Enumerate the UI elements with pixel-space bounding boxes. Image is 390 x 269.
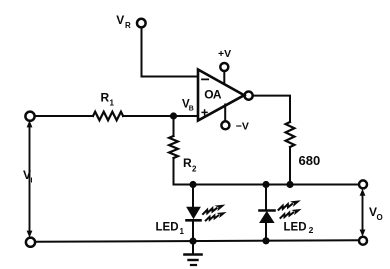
LED1 cathode bar [187, 219, 201, 222]
LED2 light arrow upper [277, 198, 302, 212]
VI measurement arrow [29, 125, 31, 234]
svg-text:O: O [377, 213, 383, 222]
svg-text:B: B [189, 106, 194, 113]
resistor R1 [93, 112, 123, 121]
wire R2 bottom lead to middle rail [174, 158, 360, 185]
svg-text:680: 680 [299, 153, 321, 168]
svg-text:2: 2 [192, 165, 197, 174]
svg-text:1: 1 [180, 227, 185, 236]
node VI bottom terminal [26, 238, 35, 247]
wire LED2 anode lead [265, 223, 267, 242]
node VB junction [170, 112, 177, 119]
svg-text:I: I [31, 178, 33, 185]
svg-text:OA: OA [204, 88, 222, 102]
wire LED1 cathode lead [192, 222, 194, 242]
svg-text:+V: +V [218, 48, 231, 60]
LED1 light arrow upper [202, 202, 227, 216]
wire VR vertical [141, 28, 143, 77]
svg-text:R: R [101, 91, 110, 105]
wire VI top to R1 [35, 115, 93, 117]
svg-text:2: 2 [309, 225, 314, 235]
node 680 junction [286, 181, 293, 188]
LED2 diode triangle [260, 212, 274, 223]
svg-text:1: 1 [110, 99, 115, 108]
node LED2 top junction [262, 181, 269, 188]
resistor R2 [169, 136, 178, 158]
wire LED1 anode lead [192, 185, 194, 208]
op-amp U1 triangle [198, 70, 244, 121]
ground [185, 241, 202, 265]
op-amp +V stub [223, 71, 225, 84]
node LED1 top junction [189, 181, 196, 188]
wire output to 680 [253, 96, 290, 122]
node output terminal [245, 92, 253, 100]
LED2 cathode bar [260, 209, 275, 212]
wire bottom rail [35, 240, 359, 242]
node -V terminal [221, 121, 229, 129]
svg-text:R: R [125, 21, 131, 30]
wire 680 bottom lead [289, 147, 291, 185]
wire LED2 cathode lead [265, 185, 267, 210]
wire VR to op-amp minus input [142, 76, 199, 78]
node LED2 bottom junction [262, 237, 269, 244]
resistor 680 [286, 122, 295, 147]
svg-text:−V: −V [236, 121, 249, 133]
LED2 light arrow lower [279, 207, 303, 220]
wire R1 to op-amp plus input [123, 115, 198, 117]
op-amp -V stub [224, 105, 226, 122]
svg-text:LED: LED [284, 221, 307, 233]
node VO bottom terminal [359, 237, 367, 245]
node VI top terminal [25, 112, 34, 121]
svg-text:R: R [183, 156, 192, 170]
wire R2 top lead [173, 116, 175, 136]
node LED1 bottom junction [189, 238, 196, 245]
svg-text:V: V [116, 13, 124, 27]
svg-text:LED: LED [156, 222, 179, 234]
node VO top terminal [359, 180, 367, 188]
VO measurement arrow [362, 193, 364, 233]
op-amp minus sign [202, 78, 208, 80]
node +V terminal [220, 63, 228, 71]
node VR terminal [137, 19, 146, 28]
LED1 light arrow lower [205, 210, 228, 223]
LED1 diode triangle [187, 207, 200, 218]
op-amp plus sign [202, 110, 207, 115]
